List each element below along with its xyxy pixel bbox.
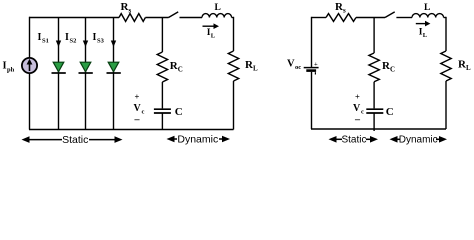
resistor RL (right, vertical) (441, 51, 451, 81)
diode D1 (53, 62, 64, 72)
wire left vertical top (corner to Iph) (29, 17, 31, 58)
svg-text:I: I (93, 32, 97, 43)
inductor L (left circuit, 4 bumps) (202, 14, 232, 18)
Static span arrow (right circuit) (329, 135, 379, 146)
svg-text:+: + (355, 92, 360, 102)
svg-text:C: C (178, 66, 183, 74)
svg-text:L: L (253, 65, 258, 73)
svg-text:oc: oc (295, 64, 301, 71)
svg-text:+: + (135, 92, 140, 102)
svg-text:Dynamic: Dynamic (177, 134, 218, 146)
wire left vertical bottom (Iph to bottom corner) (29, 74, 31, 130)
current arrowhead IS2 (83, 41, 88, 48)
resistor RC (right, vertical) (369, 53, 379, 82)
wire from switch contact to inductor (396, 17, 412, 19)
svg-text:Static: Static (341, 135, 366, 146)
left vertical wire bottom (right circuit) (311, 72, 313, 129)
wire bottom (right circuit) (311, 128, 446, 130)
wire from Rs to switch pivot (junction at RC branch) (356, 17, 385, 19)
RC branch (left): wire top (161, 18, 163, 53)
battery Voc (304, 67, 319, 69)
wire inductor to top-right corner (444, 17, 446, 19)
resistor RC (left, vertical) (157, 52, 167, 82)
right vertical wire bottom (right circuit) (445, 81, 447, 129)
svg-text:L: L (423, 32, 428, 39)
svg-text:Dynamic: Dynamic (399, 135, 438, 146)
svg-text:S3: S3 (97, 38, 105, 45)
svg-text:+: + (314, 61, 318, 68)
wire from switch contact to inductor (180, 17, 203, 19)
current arrow IL (left circuit) (203, 25, 215, 27)
resistor RL (left, vertical) (228, 51, 238, 81)
capacitor C (left) (154, 108, 171, 110)
svg-text:c: c (361, 109, 364, 116)
resistor Rs (left circuit) (119, 14, 145, 22)
svg-text:s: s (343, 7, 346, 15)
left vertical wire top (right circuit, corner to battery) (311, 17, 313, 67)
svg-text:C: C (390, 66, 395, 74)
svg-text:I: I (3, 61, 7, 72)
svg-text:V: V (134, 103, 142, 114)
current arrowhead IS1 (56, 41, 61, 48)
resistor Rs (right circuit) (326, 14, 356, 22)
svg-text:C: C (175, 106, 183, 118)
wire bottom (left circuit) (29, 129, 234, 131)
svg-text:V: V (287, 59, 295, 70)
diode D2 (80, 62, 91, 72)
svg-text:s: s (129, 7, 132, 15)
wire top (left circuit, from left corner to Rs) (29, 17, 119, 19)
svg-text:c: c (142, 109, 145, 116)
svg-text:L: L (215, 3, 221, 13)
capacitor C (right) (366, 108, 383, 110)
diode D3 (108, 62, 119, 72)
svg-text:L: L (466, 64, 471, 72)
svg-text:ph: ph (7, 67, 15, 74)
diode branch 3: wire (113, 18, 115, 130)
svg-text:–: – (134, 115, 141, 126)
right vertical wire bottom (left circuit) (233, 81, 235, 130)
svg-text:L: L (424, 3, 430, 13)
wire inductor to top-right corner (232, 17, 234, 19)
svg-text:Static: Static (62, 134, 88, 146)
svg-text:S1: S1 (42, 38, 49, 45)
Static span arrow (left circuit) (22, 134, 123, 146)
diode branch 1: wire (58, 18, 60, 130)
switch S2 (right circuit, open blade) (385, 12, 395, 18)
svg-text:–: – (354, 115, 361, 126)
wire capacitor to bottom (161, 114, 163, 130)
svg-text:I: I (38, 32, 42, 43)
svg-text:C: C (386, 106, 394, 118)
diode branch 2: wire (85, 18, 87, 130)
right vertical wire top (left circuit) (233, 17, 235, 51)
wire from Rs to switch pivot (junction at RC branch) (145, 17, 168, 19)
svg-text:V: V (353, 103, 361, 114)
svg-text:I: I (65, 32, 69, 43)
switch S1 (left circuit, open blade) (169, 12, 179, 18)
svg-text:L: L (211, 33, 216, 40)
wire RC to capacitor (373, 82, 375, 109)
Dynamic span arrow (left circuit) (167, 134, 231, 146)
wire top (right circuit left corner to Rs) (312, 17, 327, 19)
right vertical wire top (right circuit) (445, 17, 447, 51)
inductor L (right circuit, 4 bumps) (412, 14, 444, 18)
current arrow IL (right circuit) (416, 23, 426, 25)
wire RC to capacitor (161, 82, 163, 108)
Dynamic span arrow (right circuit) (390, 135, 448, 146)
current arrowhead IS3 (111, 41, 116, 48)
current source Iph (22, 58, 37, 73)
svg-text:S2: S2 (70, 38, 77, 45)
wire capacitor to bottom (373, 114, 375, 132)
RC branch (right): wire top (373, 18, 375, 54)
